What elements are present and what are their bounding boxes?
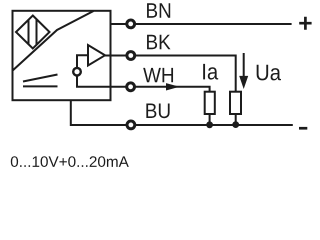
wire BK: op-amp output to terminal then down to R2 [105, 56, 236, 92]
Ua direction arrow shaft [243, 53, 245, 78]
caption output range [11, 156, 129, 167]
load resistor R1 (Ia load) [205, 92, 215, 114]
terminal BU [127, 121, 135, 129]
label Ua [257, 65, 281, 81]
plus terminal polarity [299, 17, 311, 30]
terminal WH [127, 83, 135, 91]
label Ia [203, 64, 218, 80]
proximity-sensor diamond symbol [16, 16, 50, 49]
diamond inner chord right [36, 19, 38, 45]
wire: R2 bottom to 0V rail [235, 114, 237, 125]
analog ramp symbol [23, 75, 58, 87]
Ua direction arrow head [239, 76, 248, 89]
label WH [143, 68, 173, 82]
minus terminal polarity [299, 127, 307, 130]
sensor body outline [13, 11, 111, 100]
Ia flow arrow head [166, 83, 180, 90]
label BU [146, 104, 169, 119]
junction dot R2/0V [232, 121, 239, 128]
terminal BK [127, 52, 135, 60]
junction dot R1/0V [206, 121, 213, 128]
diamond inner chord left [28, 20, 30, 45]
wire BU: box bottom drop to 0V rail to - supply [71, 100, 293, 125]
wire WH: node down then right to R1 [77, 72, 210, 92]
sensor body diagonal [13, 11, 94, 71]
load resistor R2 (Ua load) [230, 92, 241, 114]
test point node circle [73, 68, 81, 76]
wire: R1 bottom to 0V rail [209, 114, 211, 125]
wire BN: box to + supply [111, 23, 292, 25]
wire: node to op-amp input [77, 55, 88, 71]
terminal BN [127, 20, 135, 28]
label BK [147, 35, 170, 49]
op-amp A1 [88, 45, 105, 66]
label BN [147, 3, 170, 17]
